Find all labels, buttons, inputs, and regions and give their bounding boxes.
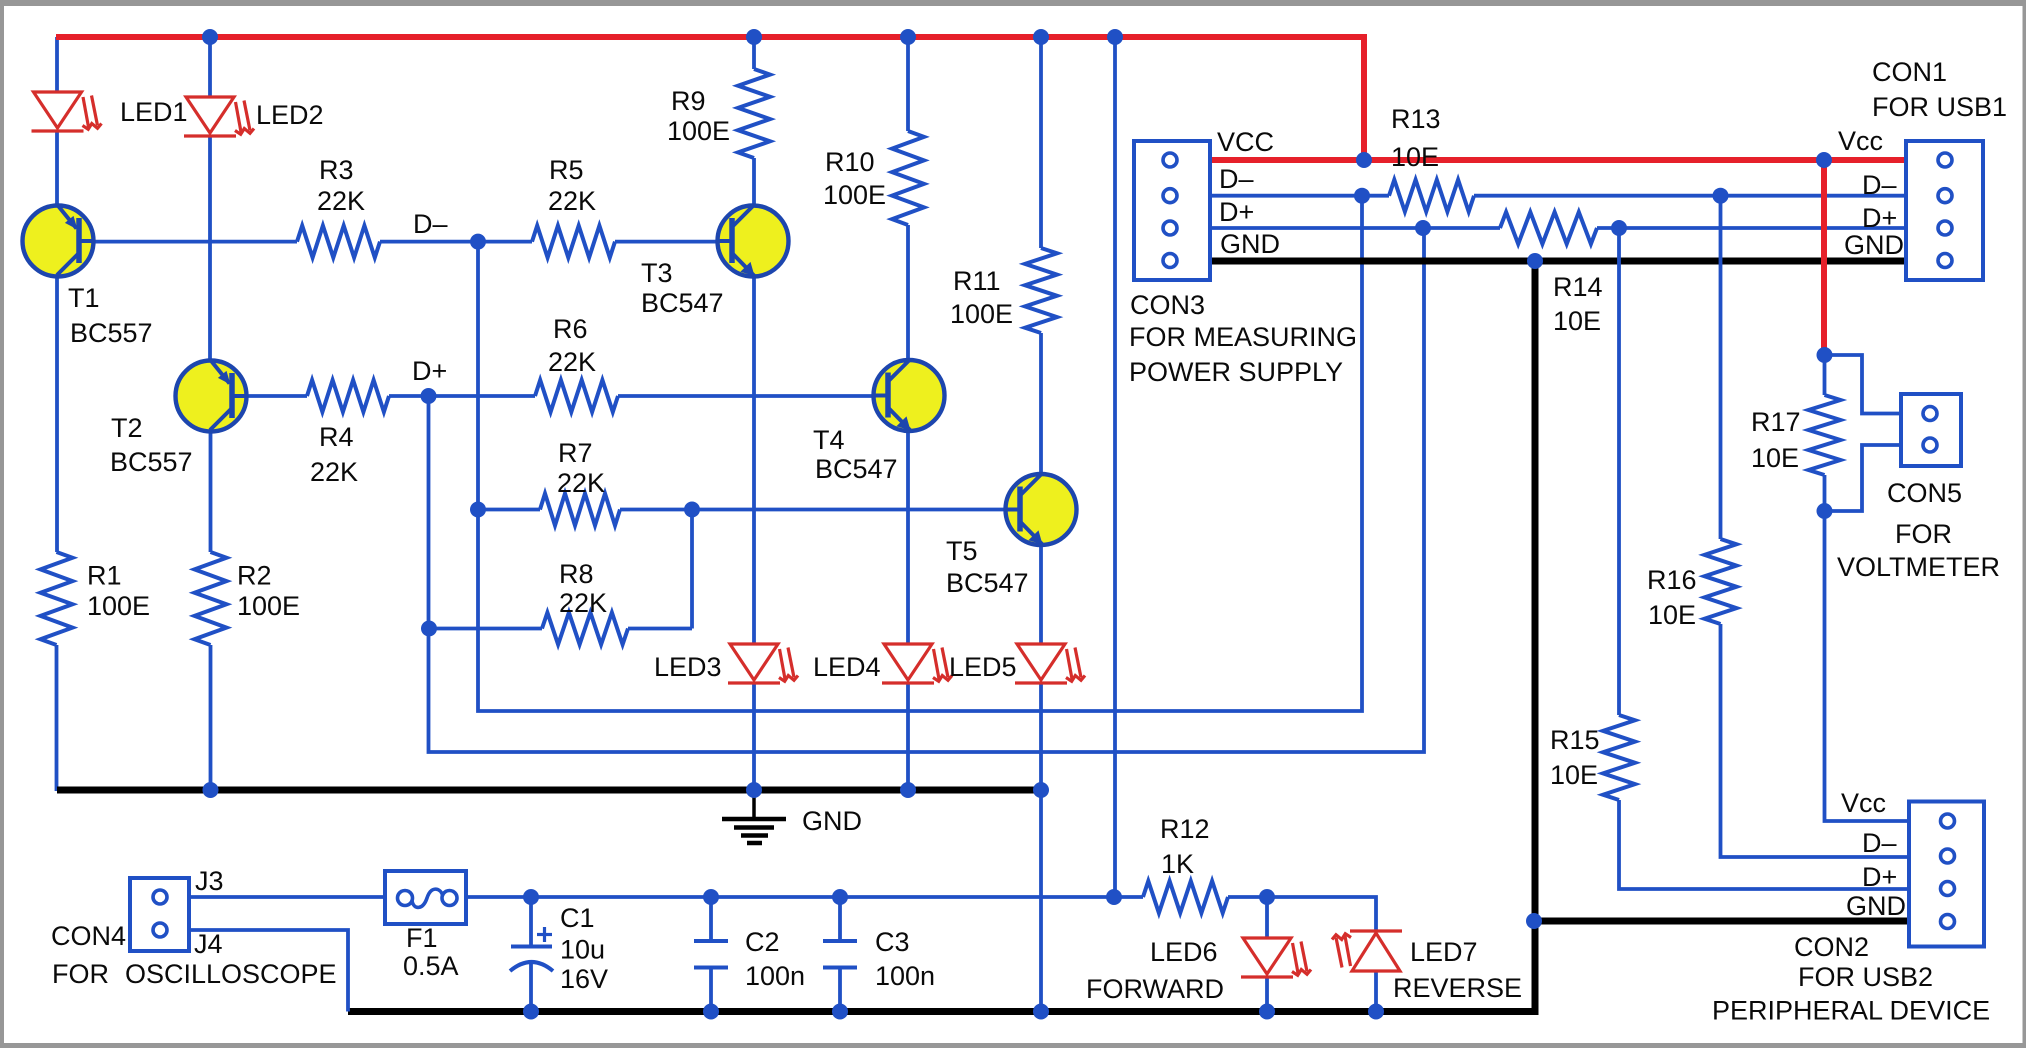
node junctions on VCC rail (202, 29, 218, 45)
LED LED6 (1241, 938, 1311, 977)
svg-text:R4: R4 (319, 422, 354, 452)
node D+ split (1415, 220, 1431, 236)
svg-text:10E: 10E (1648, 600, 1696, 630)
svg-text:R10: R10 (825, 147, 875, 177)
nodes on upper GND rail (203, 782, 219, 798)
svg-text:BC547: BC547 (641, 288, 724, 318)
svg-text:R3: R3 (319, 155, 354, 185)
svg-text:Vcc: Vcc (1841, 788, 1886, 818)
wire CON4 J3 to fuse F1 (191, 895, 386, 899)
svg-text:PERIPHERAL DEVICE: PERIPHERAL DEVICE (1712, 996, 1990, 1026)
node Vcc at CON1 (1816, 152, 1832, 168)
svg-text:LED4: LED4 (813, 652, 881, 682)
svg-text:100E: 100E (823, 180, 886, 210)
connector CON4 FOR OSCILLOSCOPE (130, 878, 189, 951)
svg-text:LED6: LED6 (1150, 937, 1218, 967)
wire R7 to node (620, 508, 692, 512)
resistor R16 10E (1705, 539, 1737, 624)
wire LED4 cathode to GND rail (906, 682, 910, 791)
LED LED2 (184, 97, 254, 136)
wire node D+ to R6 (429, 394, 536, 398)
wire upper GND rail (57, 787, 1041, 794)
wire R8 to riser (628, 627, 692, 631)
svg-text:LED7: LED7 (1410, 937, 1478, 967)
wire R17 bottom to CON5 pin 2 (1825, 445, 1902, 511)
svg-text:D+: D+ (1219, 197, 1254, 227)
svg-text:FOR USB1: FOR USB1 (1872, 92, 2007, 122)
svg-text:J4: J4 (194, 929, 223, 959)
wire F1 to R12 node (466, 895, 1114, 899)
resistor R10 100E (892, 131, 924, 225)
wire GND trunk down to bottom rail (348, 261, 1535, 1012)
svg-text:10E: 10E (1550, 760, 1598, 790)
svg-text:R6: R6 (553, 314, 588, 344)
svg-text:R11: R11 (953, 266, 1001, 296)
wire R1 to GND rail (55, 645, 59, 791)
wire R2 to GND rail (209, 645, 213, 791)
wire GND rail to bottom rail (1039, 791, 1043, 1012)
wire rail to R9 (752, 37, 756, 69)
border frame (0, 0, 2026, 6)
wire VCC vertical to R17 node (1821, 160, 1827, 355)
wire R11 to T5 collector (1039, 333, 1043, 473)
wire R12 node to R12 (1114, 895, 1143, 899)
wire CON3 D- to R13 (1210, 194, 1389, 198)
transistor T5 BC547 (1004, 474, 1077, 546)
wire rail down to R12 node (1113, 37, 1117, 897)
resistor R2 100E (195, 552, 227, 645)
wire C3 top (838, 897, 842, 941)
svg-text:R12: R12 (1160, 814, 1210, 844)
svg-text:BC557: BC557 (70, 318, 153, 348)
svg-text:J3: J3 (195, 866, 224, 896)
svg-text:CON1: CON1 (1872, 57, 1947, 87)
wire LED7 to bottom rail (1374, 971, 1378, 1012)
wire C2 bottom (709, 968, 713, 1012)
svg-text:100E: 100E (87, 591, 150, 621)
wire node D- to R5 (478, 240, 532, 244)
svg-text:FOR: FOR (52, 959, 109, 989)
resistor R8 22K (542, 613, 628, 645)
wire T2 base to R4 (247, 394, 307, 398)
resistor R13 10E (1389, 180, 1474, 212)
svg-text:1K: 1K (1161, 849, 1194, 879)
LED LED3 (728, 644, 798, 683)
wire C2 top (709, 897, 713, 941)
wire CON3 GND to CON1 GND (1210, 258, 1906, 265)
wire R17 to lower VCC node (1823, 475, 1827, 511)
svg-text:R8: R8 (559, 559, 594, 589)
svg-text:T2: T2 (111, 413, 143, 443)
svg-text:POWER SUPPLY: POWER SUPPLY (1129, 357, 1343, 387)
transistor T4 BC547 (872, 360, 945, 432)
wire R15 to CON2 D+ (1619, 800, 1909, 889)
LED LED4 (882, 644, 952, 683)
svg-text:0.5A: 0.5A (403, 951, 459, 981)
svg-text:CON2: CON2 (1794, 932, 1869, 962)
wire lower VCC node to CON2 Vcc (1825, 511, 1910, 821)
wire rail to R11 (1039, 37, 1043, 248)
wire R14 to CON1 D+ (1597, 226, 1906, 230)
svg-text:D–: D– (413, 209, 448, 239)
transistor T2 BC557 (176, 360, 249, 432)
wire T5 emitter to LED5 (1039, 546, 1043, 644)
wire R12 to LED6 node (1228, 895, 1267, 899)
node GND trunk at CON2 (1526, 913, 1542, 929)
svg-text:D–: D– (1219, 164, 1254, 194)
wire LED1 anode from rail (55, 37, 59, 92)
svg-text:R13: R13 (1391, 104, 1441, 134)
svg-text:R15: R15 (1550, 725, 1600, 755)
svg-text:D+: D+ (1862, 203, 1897, 233)
node R7 right (684, 502, 700, 518)
wire D- column to R7 (478, 508, 540, 512)
svg-text:R2: R2 (237, 561, 272, 591)
svg-text:R14: R14 (1553, 272, 1603, 302)
wire VCC node to R17 (1823, 355, 1827, 395)
wire D+ column to R8 (429, 627, 542, 631)
svg-text:BC547: BC547 (815, 454, 898, 484)
wire LED1 cathode to T1 emitter (55, 131, 59, 204)
wire LED3 cathode to GND rail (752, 682, 756, 791)
svg-text:BC547: BC547 (946, 568, 1029, 598)
svg-text:FORWARD: FORWARD (1086, 974, 1224, 1004)
resistor R4 22K (307, 380, 389, 412)
svg-text:LED5: LED5 (949, 652, 1017, 682)
svg-text:LED3: LED3 (654, 652, 722, 682)
svg-text:100n: 100n (745, 961, 805, 991)
svg-text:22K: 22K (548, 186, 596, 216)
resistor R5 22K (532, 226, 615, 258)
svg-text:R1: R1 (87, 561, 122, 591)
svg-text:T5: T5 (946, 536, 978, 566)
fuse F1 0.5A (385, 871, 466, 924)
svg-text:10E: 10E (1553, 306, 1601, 336)
node GND trunk top (1527, 253, 1543, 269)
LED LED1 (32, 92, 102, 131)
wire T3 emitter to LED3 (752, 278, 756, 644)
nodes on J3 line (523, 889, 539, 905)
connector CON3 FOR MEASURING POWER SUPPLY (1134, 141, 1210, 280)
wire T1 base to R3 (95, 240, 297, 244)
svg-text:R16: R16 (1647, 565, 1697, 595)
wire R6 to T4 base (618, 394, 872, 398)
resistor R14 10E (1500, 212, 1597, 244)
svg-text:GND: GND (1846, 891, 1906, 921)
node R7 left (470, 502, 486, 518)
svg-text:GND: GND (802, 806, 862, 836)
wire T1 collector to R1 (55, 277, 59, 552)
svg-text:D+: D+ (1862, 862, 1897, 892)
svg-text:100n: 100n (875, 961, 935, 991)
svg-text:R7: R7 (558, 438, 593, 468)
wire R7 node to T5 base (692, 508, 1005, 512)
svg-text:VOLTMETER: VOLTMETER (1837, 552, 2000, 582)
wire R7 node down to R8 (690, 510, 694, 629)
node R17 top (1817, 347, 1833, 363)
svg-text:CON4: CON4 (51, 921, 126, 951)
svg-text:FOR: FOR (1895, 519, 1952, 549)
svg-text:D–: D– (1862, 828, 1897, 858)
wire R17 top to CON5 pin 1 (1825, 355, 1902, 414)
node D+ at R15 (1611, 220, 1627, 236)
svg-text:R5: R5 (549, 155, 584, 185)
capacitor C1 10u 16V (510, 927, 553, 971)
svg-text:Vcc: Vcc (1838, 126, 1883, 156)
wire T2 collector to R2 (209, 432, 213, 552)
svg-text:T3: T3 (641, 258, 673, 288)
svg-text:22K: 22K (317, 186, 365, 216)
node D+ (421, 388, 437, 404)
wire rail to R10 (906, 37, 910, 131)
LED LED7 (1332, 931, 1402, 971)
capacitor C2 100n (694, 941, 728, 968)
svg-text:16V: 16V (560, 964, 608, 994)
wire R9 to T3 collector (752, 158, 756, 204)
wire CON4 J4 to bottom rail (191, 930, 348, 1012)
wire D- net down through R16 (1719, 196, 1723, 539)
svg-text:LED1: LED1 (120, 97, 188, 127)
svg-text:22K: 22K (559, 588, 607, 618)
wire LED2 cathode to T2 emitter (208, 136, 212, 359)
connector CON5 FOR VOLTMETER (1901, 394, 1961, 466)
wire LED2 anode from rail (208, 37, 212, 97)
svg-text:100E: 100E (237, 591, 300, 621)
node R17 bottom (1817, 503, 1833, 519)
svg-text:22K: 22K (557, 468, 605, 498)
resistor R17 10E (1809, 395, 1841, 475)
resistor R3 22K (297, 226, 380, 258)
wire R3 to node D- (380, 240, 478, 244)
node VCC at rail corner (1356, 152, 1372, 168)
wire node D+ down and across to D+ net (429, 228, 1425, 752)
connector CON2 FOR USB2 (1909, 802, 1984, 947)
svg-text:10E: 10E (1391, 142, 1439, 172)
svg-text:22K: 22K (548, 347, 596, 377)
LED LED5 (1015, 644, 1085, 683)
wire CON3 D+ to R14 (1210, 226, 1500, 230)
wire C3 bottom (838, 968, 842, 1012)
wire GND branch to CON2 GND (1534, 918, 1909, 925)
wire LED6 cathode to bottom rail (1265, 977, 1269, 1012)
svg-text:OSCILLOSCOPE: OSCILLOSCOPE (125, 959, 337, 989)
svg-text:C1: C1 (560, 903, 595, 933)
svg-text:FOR MEASURING: FOR MEASURING (1129, 322, 1357, 352)
connector CON1 FOR USB1 (1906, 141, 1983, 280)
svg-text:C2: C2 (745, 927, 780, 957)
svg-text:T4: T4 (813, 425, 845, 455)
resistor R15 10E (1603, 715, 1635, 800)
node D- split (1354, 188, 1370, 204)
wire C1 top (529, 897, 533, 947)
wire VCC top rail (56, 37, 1364, 160)
resistor R12 1K (1143, 881, 1228, 913)
svg-text:CON5: CON5 (1887, 478, 1962, 508)
svg-text:10u: 10u (560, 935, 605, 965)
svg-text:100E: 100E (667, 116, 730, 146)
wire LED5 cathode to GND rail (1039, 682, 1043, 791)
svg-text:BC557: BC557 (110, 447, 193, 477)
wire T4 emitter to LED4 (906, 432, 910, 644)
node D- (470, 234, 486, 250)
wire D+ net down through R15 (1617, 228, 1621, 715)
resistor R9 100E (738, 69, 770, 158)
wire node D- down and across to D- net (478, 196, 1362, 711)
svg-text:R17: R17 (1751, 407, 1801, 437)
svg-text:FOR USB2: FOR USB2 (1798, 962, 1933, 992)
svg-text:D+: D+ (412, 356, 447, 386)
node D- at R16 (1713, 188, 1729, 204)
svg-text:R9: R9 (671, 86, 706, 116)
wire LED6 node to LED7 (1267, 897, 1376, 932)
svg-text:GND: GND (1220, 229, 1280, 259)
svg-text:LED2: LED2 (256, 100, 324, 130)
wire VCC horizontal CON3 to CON1 (1210, 157, 1906, 163)
resistor R6 22K (535, 380, 618, 412)
capacitor C3 100n (823, 941, 857, 968)
wire C1 bottom (529, 961, 533, 1012)
resistor R11 100E (1025, 248, 1057, 333)
wire R4 to node D+ (389, 394, 429, 398)
wire R16 to CON2 D- (1721, 624, 1910, 857)
svg-text:100E: 100E (950, 299, 1013, 329)
resistor R7 22K (540, 494, 620, 526)
wire R10 to T4 collector (906, 225, 910, 359)
svg-text:GND: GND (1844, 230, 1904, 260)
svg-text:22K: 22K (310, 457, 358, 487)
svg-text:10E: 10E (1751, 443, 1799, 473)
wire R13 to CON1 D- (1474, 194, 1906, 198)
svg-text:C3: C3 (875, 927, 910, 957)
resistor R1 100E (41, 552, 73, 645)
svg-text:F1: F1 (406, 923, 438, 953)
svg-text:T1: T1 (68, 283, 100, 313)
wire LED6 node down to LED6 anode (1265, 897, 1269, 938)
svg-text:VCC: VCC (1217, 127, 1274, 157)
svg-text:REVERSE: REVERSE (1393, 973, 1522, 1003)
nodes on bottom rail (523, 1004, 539, 1020)
transistor T3 BC547 (716, 205, 789, 277)
svg-text:CON3: CON3 (1130, 290, 1205, 320)
transistor T1 BC557 (23, 205, 96, 277)
svg-text:D–: D– (1862, 170, 1897, 200)
ground GND symbol (722, 791, 786, 843)
node R8 left (421, 621, 437, 637)
wire R5 to T3 base (615, 240, 716, 244)
